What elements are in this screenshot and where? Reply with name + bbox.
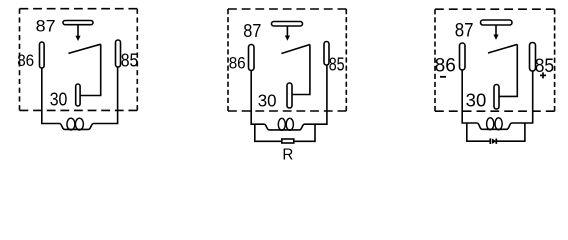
- svg-text:87: 87: [36, 17, 56, 36]
- coil loop 1 (K3): [487, 118, 494, 130]
- coil loop 2 (K1): [75, 118, 83, 130]
- coil loop 2 (K3): [495, 118, 502, 130]
- svg-text:85: 85: [535, 56, 554, 77]
- pin 85 terminal (K1): [116, 40, 121, 67]
- coil negative polarity mark (K3): [440, 76, 446, 78]
- svg-text:86: 86: [229, 54, 246, 73]
- pin 30 terminal (K3): [494, 85, 499, 110]
- diode branch right wire (K3): [496, 123, 525, 141]
- diode branch left wire (K3): [467, 123, 490, 141]
- svg-text:86: 86: [435, 56, 456, 77]
- pin 30 terminal (K1): [76, 84, 80, 106]
- wire from blade to pin 30 (K2): [292, 45, 310, 95]
- svg-text:R: R: [282, 147, 293, 164]
- svg-text:85: 85: [121, 51, 139, 71]
- resistor branch left wire (K2): [255, 124, 282, 141]
- resistor R (K2): [282, 139, 294, 143]
- relay K3 body (dashed box): [435, 9, 555, 111]
- coil wire 86-to-85 with dip (K2): [251, 65, 327, 130]
- coil loop 2 (K2): [286, 118, 293, 130]
- svg-text:30: 30: [50, 90, 68, 110]
- switch blade contact 87-30 (K1): [68, 44, 100, 53]
- pin 86 terminal (K2): [249, 45, 255, 71]
- pin 85 terminal (K3): [530, 43, 536, 72]
- armature actuation arrow (K2): [285, 26, 290, 41]
- pin 86 terminal (K3): [460, 43, 466, 70]
- pin 85 terminal (K2): [324, 42, 329, 66]
- svg-text:85: 85: [329, 55, 345, 75]
- diode D (K3): [490, 138, 496, 144]
- wire from blade to pin 30 (K3): [499, 44, 517, 96]
- coil positive polarity mark (K3): [540, 72, 546, 78]
- svg-text:86: 86: [17, 51, 34, 70]
- pin 87 terminal (K3): [481, 20, 513, 25]
- resistor branch right wire (K2): [294, 124, 315, 141]
- coil wire 86-to-85 with dip (K3): [462, 70, 533, 129]
- armature actuation arrow (K3): [493, 25, 498, 40]
- svg-text:87: 87: [243, 20, 261, 41]
- svg-text:30: 30: [258, 91, 277, 111]
- pin 30 terminal (K2): [287, 83, 292, 108]
- relay K1 body (dashed box): [20, 9, 138, 111]
- svg-text:87: 87: [455, 21, 474, 42]
- switch blade contact 87-30 (K2): [281, 45, 310, 54]
- pin 87 terminal (K2): [272, 22, 303, 27]
- switch blade contact 87-30 (K3): [488, 44, 517, 53]
- coil wire 86-to-85 with dip (K1): [42, 67, 118, 129]
- svg-text:30: 30: [466, 91, 487, 111]
- armature actuation arrow (K1): [75, 25, 80, 41]
- pin 87 terminal (K1): [63, 21, 93, 25]
- pin 86 terminal (K1): [40, 42, 45, 68]
- relay K2 body (dashed box): [228, 9, 346, 111]
- coil loop 1 (K2): [278, 118, 285, 130]
- wire from blade to pin 30 (K1): [80, 44, 101, 95]
- coil loop 1 (K1): [67, 118, 75, 130]
